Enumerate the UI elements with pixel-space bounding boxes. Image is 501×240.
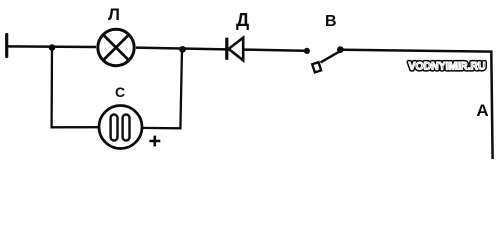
lamp L cross	[103, 35, 129, 61]
switch V handle	[312, 62, 321, 72]
diode D triangle	[229, 38, 244, 61]
lamp L circle	[98, 29, 134, 65]
wire lamp to diode	[136, 48, 226, 50]
svg-text:VODNYIMIR.RU: VODNYIMIR.RU	[409, 60, 486, 72]
wire branch right vertical	[141, 49, 183, 128]
element C left plate	[111, 115, 118, 141]
element C circle (cell)	[99, 106, 142, 149]
svg-text:С: С	[115, 84, 125, 100]
svg-text:В: В	[325, 13, 337, 30]
switch V left contact	[304, 48, 310, 54]
diode D cathode bar	[225, 38, 228, 60]
plus sign	[149, 136, 160, 147]
svg-text:А: А	[476, 101, 488, 120]
watermark VODNYIMIR.RU	[409, 60, 486, 72]
switch V right contact	[337, 46, 344, 53]
terminal (left input)	[5, 35, 8, 57]
svg-text:Л: Л	[108, 5, 120, 24]
node junction dot 1	[49, 44, 56, 51]
wire branch left vertical	[52, 48, 98, 128]
switch V lever	[321, 52, 340, 63]
wire diode to switch	[243, 50, 304, 51]
wire switch to right corner and down	[344, 50, 493, 159]
wire terminal to lamp	[7, 45, 96, 48]
element C right plate	[123, 115, 130, 141]
svg-text:Д: Д	[236, 9, 249, 30]
node junction dot 2	[179, 46, 186, 53]
